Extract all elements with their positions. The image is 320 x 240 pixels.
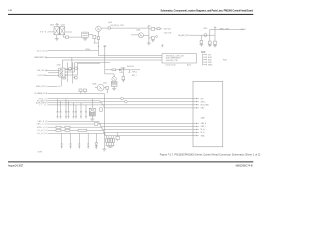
- svg-text:B+_SENSE_OUT (4): B+_SENSE_OUT (4): [35, 93, 48, 95]
- svg-text:BUS+: BUS+: [208, 57, 212, 59]
- svg-text:6881096C74-B: 6881096C74-B: [236, 164, 253, 167]
- svg-text:Q405: Q405: [57, 65, 61, 67]
- svg-text:9V3: 9V3: [201, 98, 204, 100]
- svg-text:R410 100: R410 100: [127, 66, 134, 68]
- svg-text:R408: R408: [93, 83, 97, 85]
- svg-text:SWB+_CTRL: SWB+_CTRL: [220, 29, 230, 31]
- svg-text:C407: C407: [103, 83, 107, 85]
- svg-text:SPK_1: SPK_1: [132, 71, 137, 73]
- svg-text:9V3: 9V3: [208, 54, 211, 56]
- svg-text:BL_B (10): BL_B (10): [38, 133, 48, 135]
- svg-text:B+: B+: [59, 86, 61, 88]
- svg-text:J400: J400: [201, 118, 205, 120]
- svg-text:MIC_1: MIC_1: [132, 75, 137, 77]
- svg-text:GND (6): GND (6): [39, 98, 48, 100]
- svg-text:SWB+_KEY (1): SWB+_KEY (1): [36, 86, 48, 88]
- svg-text:Q406: Q406: [136, 30, 140, 32]
- svg-text:NOTE: NOTE: [38, 151, 42, 153]
- svg-text:LT (5): LT (5): [40, 105, 48, 107]
- svg-text:BUS-: BUS-: [208, 59, 212, 61]
- svg-text:BUS+/GND: BUS+/GND: [201, 105, 210, 107]
- svg-text:SW B+: SW B+: [201, 101, 206, 103]
- svg-text:← GND IGN_CTRL: ← GND IGN_CTRL: [164, 60, 178, 62]
- svg-text:R415: R415: [204, 28, 208, 30]
- svg-text:TP400: TP400: [85, 49, 90, 51]
- svg-text:Name: Name: [187, 64, 191, 66]
- svg-text:Q403: Q403: [50, 25, 54, 27]
- svg-text:CR400: CR400: [120, 67, 125, 69]
- svg-text:9V3_SW_B+_CTRL: 9V3_SW_B+_CTRL: [111, 25, 125, 27]
- svg-text:P401-1: P401-1: [241, 29, 246, 31]
- svg-text:BL_B: BL_B: [201, 132, 205, 134]
- svg-text:← 9V3 SW_B+_CTRL_OUT: ← 9V3 SW_B+_CTRL_OUT: [164, 55, 184, 57]
- svg-text:EMERGENCY (11): EMERGENCY (11): [34, 57, 47, 59]
- svg-text:P400: P400: [223, 59, 227, 61]
- svg-text:Figure 7-17. PM1500/PM1800 Ser: Figure 7-17. PM1500/PM1800 Series Contro…: [160, 153, 261, 156]
- svg-text:GROUND: GROUND: [38, 75, 47, 77]
- svg-text:IGN_SW (9): IGN_SW (9): [37, 70, 47, 72]
- svg-text:SWB+: SWB+: [201, 135, 206, 137]
- svg-text:SWB+: SWB+: [208, 64, 213, 66]
- svg-text:SWB+ (14): SWB+ (14): [37, 127, 48, 129]
- svg-text:C410: C410: [119, 72, 123, 74]
- svg-text:← BUS+ EMERGENCY: ← BUS+ EMERGENCY: [164, 58, 182, 60]
- svg-text:August 24, 2007: August 24, 2007: [8, 165, 24, 168]
- svg-text:Schematics, Component Location: Schematics, Component Location Diagrams,…: [161, 10, 254, 13]
- svg-text:BLNK_LMP (7): BLNK_LMP (7): [36, 103, 48, 105]
- svg-text:R407 220: R407 220: [164, 28, 171, 30]
- svg-text:C400 .1UF: C400 .1UF: [164, 32, 172, 34]
- svg-text:Q400: Q400: [108, 22, 112, 24]
- svg-text:Q404: Q404: [61, 25, 65, 27]
- svg-text:SW B+: SW B+: [40, 32, 48, 34]
